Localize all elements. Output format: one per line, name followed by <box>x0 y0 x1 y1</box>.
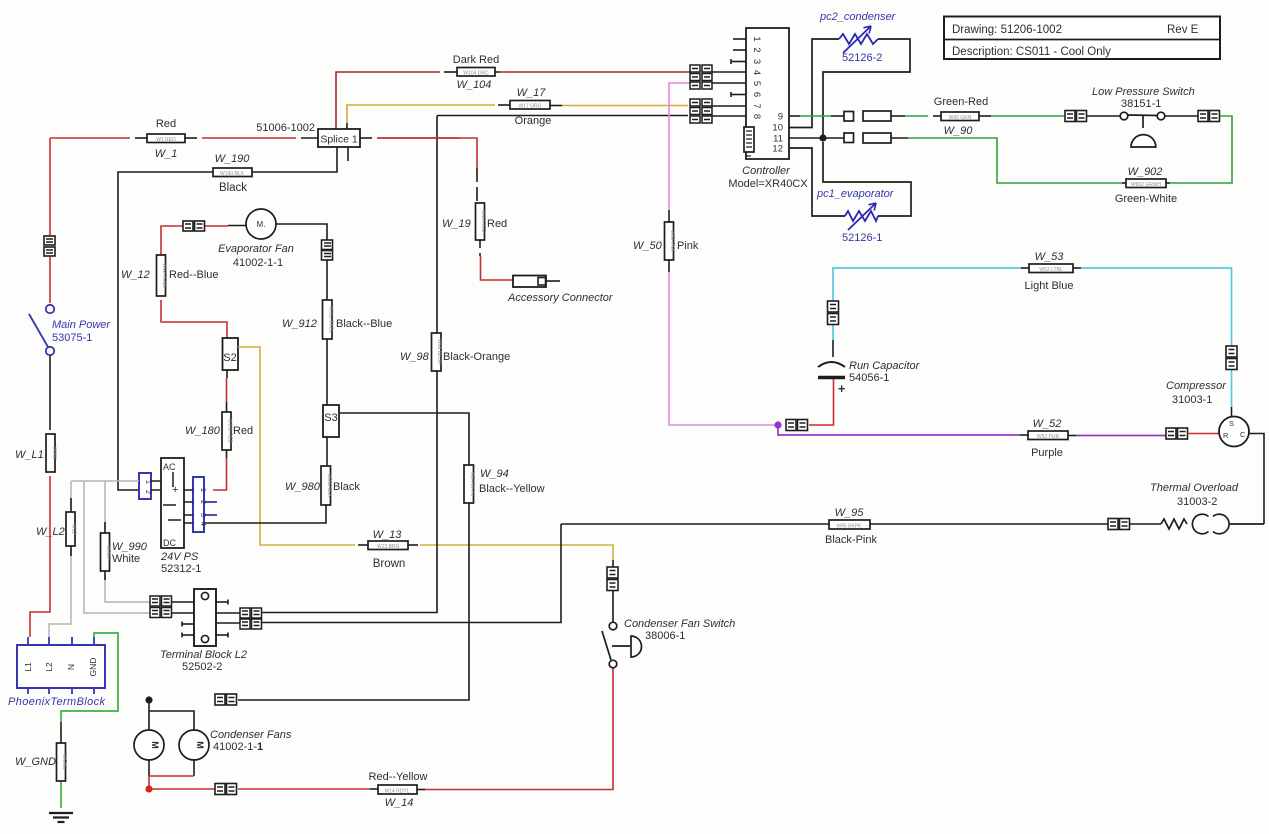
svg-text:54056-1: 54056-1 <box>849 372 889 384</box>
wire W_94 down to condenser fans <box>238 503 469 700</box>
svg-text:Black--Yellow: Black--Yellow <box>479 483 545 495</box>
connector W_990 <box>101 533 112 571</box>
svg-text:W_95: W_95 <box>835 507 865 519</box>
svg-text:5: 5 <box>751 81 762 86</box>
wire red W_180 to 24V PS <box>213 450 227 490</box>
svg-text:W_L2: W_L2 <box>36 526 65 538</box>
svg-text:9: 9 <box>778 112 783 123</box>
wire dark red splice riser and horizontal <box>336 72 688 129</box>
svg-text:Red--Yellow: Red--Yellow <box>369 771 428 783</box>
wire red EE to compressor <box>1188 433 1220 435</box>
svg-text:4: 4 <box>199 522 206 526</box>
svg-text:S: S <box>1229 419 1234 428</box>
connector EE cyan right (vertical) <box>1226 346 1237 370</box>
connector faston pin9 <box>844 111 891 121</box>
svg-text:M.: M. <box>257 220 266 229</box>
svg-text:GND: GND <box>88 658 98 677</box>
svg-text:W190 BLK: W190 BLK <box>220 171 245 177</box>
connector faston pin11 <box>844 133 891 143</box>
pin stubs 1 2 3 6 <box>731 39 746 97</box>
wire purple W_52 <box>778 425 1166 436</box>
svg-text:W95 BKPK: W95 BKPK <box>836 524 862 530</box>
svg-text:W14 RDYL: W14 RDYL <box>384 789 409 795</box>
svg-text:Black-Pink: Black-Pink <box>825 534 877 546</box>
capacitor Run Capacitor 54056-1 <box>818 362 845 378</box>
connector W_104 <box>457 68 495 77</box>
wire dark red black leads <box>444 71 500 73</box>
wire red capacitor lower lead <box>809 379 834 425</box>
wire W_190 black from splice <box>118 147 337 490</box>
wire green right loop to W_902 <box>1166 116 1232 183</box>
pin stubs 4 5 7 8 <box>712 72 746 116</box>
svg-text:Condenser Fans: Condenser Fans <box>210 729 292 741</box>
svg-text:Terminal Block L2: Terminal Block L2 <box>160 649 247 661</box>
svg-text:41002-1-1: 41002-1-1 <box>233 257 283 269</box>
connector W_1 <box>147 134 185 143</box>
svg-text:3: 3 <box>751 59 762 64</box>
connector EE terminal block right <box>240 608 262 629</box>
svg-text:Description: CS011 - Cool Only: Description: CS011 - Cool Only <box>952 46 1111 58</box>
svg-text:Purple: Purple <box>1031 447 1063 459</box>
connector EE evaporator fan <box>183 221 205 231</box>
svg-text:W_19: W_19 <box>442 218 471 230</box>
pin numbers 1-8 <box>751 36 762 119</box>
svg-text:W_GND: W_GND <box>15 756 56 768</box>
svg-text:8: 8 <box>751 114 762 119</box>
motor condenser fan 2 <box>179 730 209 760</box>
connector EE before LPS <box>1065 111 1087 122</box>
svg-text:10: 10 <box>772 123 783 134</box>
wire W_1 red horizontal <box>50 137 460 139</box>
svg-text:L1: L1 <box>23 662 33 672</box>
pin numbers 9-12 <box>772 112 783 155</box>
wire W_13 black leads <box>358 544 418 546</box>
connector EE terminal block left <box>150 596 172 618</box>
connector W_17 <box>510 101 550 110</box>
svg-text:Red: Red <box>487 218 507 230</box>
svg-text:Model=XR40CX: Model=XR40CX <box>728 178 808 190</box>
terminal block pins <box>172 600 240 638</box>
svg-text:W_190: W_190 <box>215 153 251 165</box>
connector EE fans bottom line <box>215 784 237 795</box>
svg-text:W17 ORG: W17 ORG <box>518 104 541 110</box>
overload Thermal Overload 31003-2 <box>1161 514 1264 534</box>
connector EE fans top line <box>215 694 237 705</box>
svg-text:W_53: W_53 <box>1035 251 1065 263</box>
wire red to evaporator fan EE <box>161 226 228 255</box>
connector W_50 <box>665 222 676 260</box>
svg-text:1: 1 <box>144 480 151 484</box>
svg-text:W_104: W_104 <box>457 79 492 91</box>
phoenix pins <box>28 637 94 694</box>
svg-text:W_13: W_13 <box>373 529 403 541</box>
svg-text:1: 1 <box>199 488 206 492</box>
svg-text:12: 12 <box>772 144 783 155</box>
wire red W_12 to S2 <box>161 300 227 338</box>
svg-text:24V PS: 24V PS <box>160 551 199 563</box>
wire red-yellow W_14 <box>149 668 613 790</box>
connector EE controller group1 <box>690 65 712 89</box>
svg-text:Thermal Overload: Thermal Overload <box>1150 482 1239 494</box>
svg-text:W980 BLK: W980 BLK <box>326 474 332 499</box>
connector EE evap fan right (vertical) <box>322 240 333 260</box>
svg-text:Controller: Controller <box>742 165 791 177</box>
wire compressor to thermal overload <box>1249 434 1264 525</box>
svg-text:pc1_evaporator: pc1_evaporator <box>816 188 895 200</box>
wire S3 right to W_94 column <box>339 413 469 465</box>
svg-text:W_980: W_980 <box>285 481 321 493</box>
connector W_13 <box>368 541 408 550</box>
svg-text:WIRE: WIRE <box>51 446 57 460</box>
wire red W_L1 to phoenix L1 <box>30 476 50 637</box>
wire W_1 black lead dashes <box>135 137 372 139</box>
wire W_98 column <box>261 116 437 613</box>
svg-text:Black: Black <box>219 182 247 194</box>
svg-text:WGND: WGND <box>61 754 67 770</box>
wire capacitor upper lead <box>832 340 834 357</box>
svg-text:S2: S2 <box>223 352 236 364</box>
motor condenser fan 1 <box>134 730 164 760</box>
wire W_980 to 24V PS pin4 <box>204 505 326 523</box>
ground symbol <box>49 813 73 822</box>
node corner + wire red vertical left column <box>49 138 51 303</box>
wire orange black leads <box>347 105 562 129</box>
svg-text:L2: L2 <box>44 662 54 672</box>
svg-text:52126-2: 52126-2 <box>842 52 882 64</box>
svg-text:52312-1: 52312-1 <box>161 563 201 575</box>
svg-text:M: M <box>150 741 160 749</box>
connector W_95 <box>829 520 870 530</box>
svg-text:R: R <box>1223 431 1229 440</box>
svg-text:N: N <box>66 664 76 670</box>
wire condenser fans top feed <box>149 700 194 730</box>
svg-text:W_902: W_902 <box>1128 166 1163 178</box>
wire pin9 green <box>789 115 844 117</box>
pin stubs PS right outer <box>204 502 217 515</box>
svg-text:Red--Blue: Red--Blue <box>169 269 219 281</box>
wire W_14 black leads <box>370 788 425 791</box>
wire yellow S2 to W_13 to condenser fan switch <box>238 347 613 560</box>
wire cyan W_53 loop <box>833 268 1232 407</box>
svg-text:W104 DRD: W104 DRD <box>463 71 489 77</box>
component S2 <box>223 338 239 370</box>
wire EE to LPS <box>1087 115 1121 117</box>
wire pink black leads at W_50 <box>668 210 670 272</box>
svg-text:W_90: W_90 <box>944 125 974 137</box>
component S3 <box>323 405 339 437</box>
svg-text:W52 PUR: W52 PUR <box>1037 434 1060 440</box>
connector EE cyan left (vertical) <box>828 301 839 325</box>
connector W_53 <box>1029 264 1073 273</box>
svg-text:38151-1: 38151-1 <box>1121 98 1161 110</box>
wire W_902 back to pin11 <box>891 138 1126 183</box>
connector W_180 <box>222 412 233 450</box>
wire green ground <box>61 633 118 808</box>
wire orange from splice to controller <box>347 105 688 123</box>
connector EE before compressor <box>1166 428 1188 439</box>
wire W_GND black leads <box>60 722 62 743</box>
svg-text:W_990: W_990 <box>112 541 148 553</box>
wire red splice to W_19 <box>377 137 460 139</box>
wire W_L2 black leads <box>70 498 72 556</box>
connector W_902 <box>1126 179 1166 188</box>
wire W_52 black leads <box>1020 434 1076 437</box>
svg-text:Low Pressure Switch: Low Pressure Switch <box>1092 86 1195 98</box>
svg-text:Green-White: Green-White <box>1115 193 1177 205</box>
wire pink W_50 column <box>669 83 775 425</box>
node junction pin11 <box>819 134 826 141</box>
connector small inside controller <box>744 127 754 156</box>
wire terminal block to W_95 riser <box>261 524 561 623</box>
svg-text:51006-1002: 51006-1002 <box>256 122 315 134</box>
svg-text:W902 GRWH: W902 GRWH <box>1131 182 1162 188</box>
svg-text:W_14: W_14 <box>385 797 414 809</box>
motor Evaporator Fan 41002-1-1 <box>246 209 276 239</box>
power supply 24V PS 52312-1 <box>161 458 184 548</box>
svg-text:Orange: Orange <box>515 115 552 127</box>
node junction purple dot <box>774 421 781 428</box>
svg-text:W990: W990 <box>105 545 111 558</box>
svg-text:Black--Blue: Black--Blue <box>336 318 392 330</box>
svg-text:W50 PNK: W50 PNK <box>669 230 675 253</box>
svg-text:W_180: W_180 <box>185 425 221 437</box>
svg-text:W_17: W_17 <box>517 87 547 99</box>
wire pc1 evaporator loop <box>789 142 911 216</box>
terminal block L2 52502-2 <box>194 589 216 646</box>
connector Accessory Connector <box>513 276 560 288</box>
component Splice 1 <box>318 129 360 147</box>
svg-text:Green-Red: Green-Red <box>934 96 988 108</box>
svg-text:53075-1: 53075-1 <box>52 332 92 344</box>
svg-text:6: 6 <box>751 92 762 97</box>
wire pin11 stub <box>789 137 844 139</box>
svg-text:Condenser Fan Switch: Condenser Fan Switch <box>624 618 735 630</box>
connector W_14 <box>378 785 417 795</box>
svg-text:Red: Red <box>156 118 176 130</box>
svg-text:W_94: W_94 <box>480 468 509 480</box>
svg-text:W_L1: W_L1 <box>15 449 44 461</box>
connector PS blue left <box>139 473 151 499</box>
connector W_52 <box>1028 431 1068 440</box>
svg-text:W_52: W_52 <box>1033 418 1062 430</box>
svg-text:DC: DC <box>163 538 176 548</box>
wire splice bottom stub <box>347 147 349 161</box>
svg-text:2: 2 <box>751 47 762 52</box>
connector W_190 <box>213 168 252 177</box>
svg-text:W53 LTBL: W53 LTBL <box>1039 267 1062 273</box>
svg-text:Rev E: Rev E <box>1167 24 1199 36</box>
svg-text:S3: S3 <box>324 412 337 424</box>
wire S3 bottom to W_980 <box>326 437 328 466</box>
svg-text:Light Blue: Light Blue <box>1025 280 1074 292</box>
switch Main Power 53075-1 <box>29 305 54 355</box>
svg-text:+: + <box>172 484 178 496</box>
svg-text:Black: Black <box>333 481 360 493</box>
connector W_90 <box>941 112 979 121</box>
svg-text:W_50: W_50 <box>633 240 663 252</box>
svg-text:Compressor: Compressor <box>1166 380 1227 392</box>
wire LPS to right EE <box>1165 115 1198 117</box>
connector W_12 <box>157 255 168 296</box>
wire pc2 condenser loop <box>789 39 910 138</box>
connector EE at capacitor drop <box>786 420 808 431</box>
wire W_90 to LPS <box>979 115 1065 117</box>
connector EE left main (vertical) <box>44 236 55 256</box>
svg-text:WL2: WL2 <box>71 524 77 535</box>
svg-text:W_98: W_98 <box>400 351 430 363</box>
svg-text:Black-Orange: Black-Orange <box>443 351 510 363</box>
wire W_990 black leads <box>104 522 106 580</box>
connector W_94 <box>464 465 475 503</box>
wire condenser fans bottoms <box>149 760 194 789</box>
connector W_GND <box>57 743 68 781</box>
svg-text:41002-1-1: 41002-1-1 <box>213 741 263 753</box>
svg-text:M: M <box>195 741 205 749</box>
thermistor pc2_condenser 52126-2 <box>839 26 878 53</box>
svg-text:Pink: Pink <box>677 240 699 252</box>
wire W_53 black leads <box>1021 268 1232 417</box>
svg-text:AC: AC <box>163 462 176 472</box>
svg-text:Main Power: Main Power <box>52 319 111 331</box>
wire red W_19 to accessory connector <box>480 240 513 280</box>
svg-text:2: 2 <box>144 490 151 494</box>
wire controller pin8 black to W_98 <box>437 115 688 117</box>
wire W_95 black-pink long <box>561 523 1161 525</box>
svg-text:Red: Red <box>233 425 253 437</box>
svg-text:W98 BKOR: W98 BKOR <box>436 339 442 365</box>
node junction red fans bottom <box>145 785 152 792</box>
svg-text:Evaporator Fan: Evaporator Fan <box>218 243 294 255</box>
svg-text:4: 4 <box>751 70 762 75</box>
svg-text:31003-1: 31003-1 <box>1172 394 1212 406</box>
svg-text:W_1: W_1 <box>155 148 178 160</box>
connector W_98 <box>432 333 443 371</box>
switch Low Pressure Switch 38151-1 <box>1120 112 1165 147</box>
wire pin9 to W_90 <box>891 115 941 117</box>
svg-text:W19 RED: W19 RED <box>480 210 486 233</box>
phoenix block <box>17 645 105 688</box>
svg-text:38006-1: 38006-1 <box>645 630 685 642</box>
wire red W19 riser <box>460 138 477 203</box>
wire EE to switch <box>612 560 614 622</box>
svg-text:52126-1: 52126-1 <box>842 232 882 244</box>
svg-text:C: C <box>1240 430 1246 439</box>
pin stubs PS left <box>151 481 161 490</box>
svg-text:W94 BKYL: W94 BKYL <box>469 472 475 497</box>
wire black to evaporator fan <box>228 225 246 227</box>
svg-text:Brown: Brown <box>373 558 406 570</box>
wire S2 bottom to W_180 <box>226 370 229 412</box>
svg-text:Splice 1: Splice 1 <box>320 134 358 146</box>
svg-text:7: 7 <box>751 103 762 108</box>
svg-text:W13 BRN: W13 BRN <box>377 544 400 550</box>
connector PS blue right <box>193 477 206 532</box>
connector W_L2 <box>66 512 77 546</box>
svg-text:W180 RED: W180 RED <box>227 418 233 443</box>
thermistor pc1_evaporator 52126-1 <box>845 203 878 230</box>
svg-text:pc2_condenser: pc2_condenser <box>819 11 897 23</box>
svg-text:W1 RED: W1 RED <box>156 137 176 143</box>
svg-text:31003-2: 31003-2 <box>1177 496 1217 508</box>
connector W_912 <box>323 300 334 339</box>
svg-text:Drawing: 51206-1002: Drawing: 51206-1002 <box>952 24 1062 36</box>
svg-text:52502-2: 52502-2 <box>182 661 222 673</box>
titleblock Drawing 51206-1002 Rev E <box>944 17 1220 60</box>
connector W_980 <box>321 466 332 505</box>
connector W_19 <box>476 203 487 240</box>
connector EE controller group2 <box>690 99 712 123</box>
connector EE after LPS <box>1198 111 1220 122</box>
wire grey AC neutral bus <box>49 481 150 637</box>
connector W_L1 <box>46 434 57 472</box>
svg-text:W90 GRN: W90 GRN <box>949 115 972 121</box>
svg-text:Dark Red: Dark Red <box>453 54 499 66</box>
svg-text:White: White <box>112 553 140 565</box>
svg-text:+: + <box>838 382 845 396</box>
connector EE on W_95 <box>1108 519 1130 530</box>
svg-text:Accessory Connector: Accessory Connector <box>507 292 614 304</box>
svg-text:W_12: W_12 <box>121 269 150 281</box>
svg-text:W_912: W_912 <box>282 318 317 330</box>
svg-text:W12 RDBL: W12 RDBL <box>161 263 167 288</box>
pin stubs PS right <box>184 490 193 523</box>
svg-text:W912 BKBL: W912 BKBL <box>328 306 334 333</box>
wire black below switch to W_L1 <box>49 355 51 430</box>
component Controller XR40CX <box>746 28 789 159</box>
svg-text:Run Capacitor: Run Capacitor <box>849 360 921 372</box>
switch Condenser Fan Switch 38006-1 <box>602 622 642 668</box>
wire black evap fan right to W_912 and S3 <box>276 224 327 405</box>
node junction condenser fans top <box>145 696 152 703</box>
svg-text:PhoenixTermBlock: PhoenixTermBlock <box>8 696 106 708</box>
wire dark red into EE group1 <box>688 71 691 73</box>
motor Compressor 31003-1 <box>1219 417 1249 447</box>
svg-text:1: 1 <box>751 36 762 41</box>
connector EE fan switch (vertical) <box>607 567 618 591</box>
